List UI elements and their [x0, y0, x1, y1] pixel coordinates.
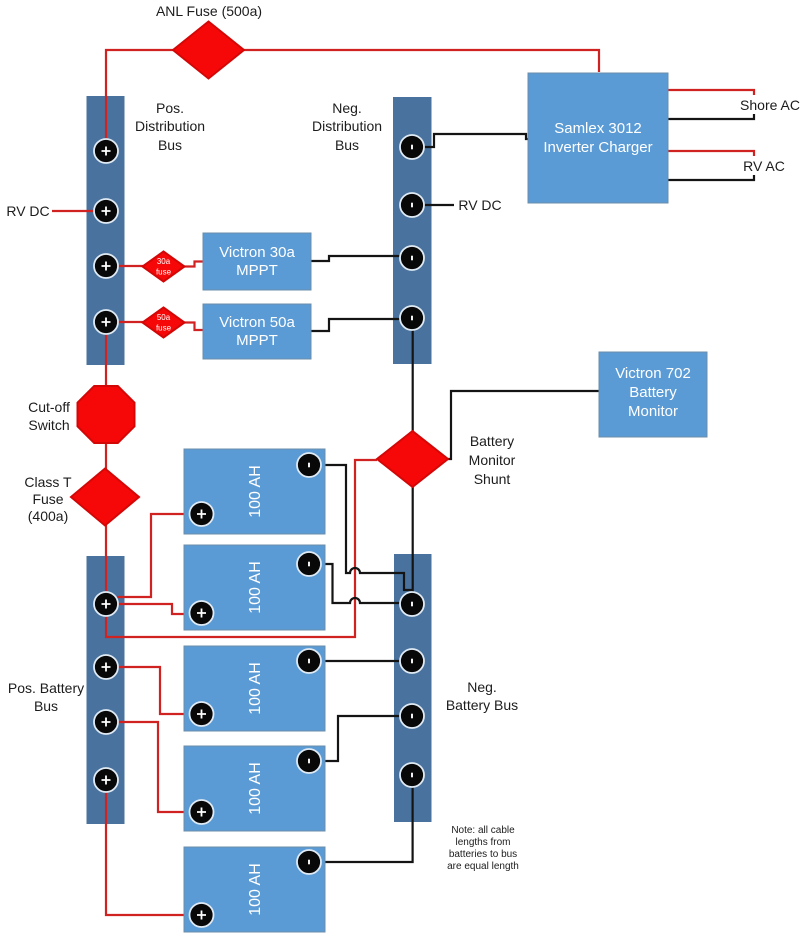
terminal: neg dist bus 3 [400, 246, 424, 270]
svg-text:Bus: Bus [34, 698, 58, 714]
wire: pos battery bus terminal 2 to battery 3 positive [117, 667, 190, 714]
svg-text:Neg.: Neg. [332, 100, 362, 116]
label: Pos. Battery Bus [8, 680, 84, 714]
wire: pos battery bus terminal 4 to battery 5 positive [106, 791, 190, 915]
svg-text:Distribution: Distribution [135, 118, 205, 134]
terminal: battery 4 negative [297, 749, 321, 773]
wire: pos battery bus terminal 3 to battery 4 positive [117, 722, 190, 812]
svg-text:Bus: Bus [335, 137, 359, 153]
label: Battery Monitor Shunt [469, 433, 516, 487]
box: Victron 50a MPPT [203, 304, 311, 359]
svg-text:Pos.: Pos. [156, 100, 184, 116]
svg-text:fuse: fuse [156, 324, 172, 333]
bus bar: Pos. Battery Bus [87, 556, 125, 824]
wire: pos dist terminal 3 to 30a fuse [117, 265, 143, 267]
terminal: battery 1 negative [297, 453, 321, 477]
svg-text:50a: 50a [157, 313, 171, 322]
svg-text:Shore AC: Shore AC [740, 97, 800, 113]
terminal: battery 5 negative [297, 850, 321, 874]
wire: pos battery bus terminal 1 to battery 2 positive [118, 604, 190, 614]
svg-text:Shunt: Shunt [474, 471, 511, 487]
svg-text:MPPT: MPPT [236, 332, 278, 349]
svg-text:Cut-off: Cut-off [28, 399, 70, 415]
svg-text:Distribution: Distribution [312, 118, 382, 134]
svg-text:Battery Bus: Battery Bus [446, 697, 518, 713]
wire: battery 1 positive to pos battery bus [117, 514, 190, 597]
wire: Class T fuse to pos battery bus terminal 1 [105, 525, 107, 593]
wire: neg dist bus terminal 4 down to shunt top [412, 329, 414, 432]
svg-text:RV DC: RV DC [6, 203, 49, 219]
svg-text:Victron 50a: Victron 50a [219, 314, 295, 331]
terminal: pos battery bus 1 [94, 592, 118, 616]
terminal: pos dist bus 1 [94, 139, 118, 163]
bus bar: Pos. Distribution Bus [87, 96, 125, 365]
svg-text:100 AH: 100 AH [247, 863, 264, 915]
wire: Samlex RV AC neutral [668, 175, 754, 180]
terminal: pos battery bus 3 [94, 710, 118, 734]
wire: RV DC to pos dist bus terminal 2 [52, 210, 95, 212]
svg-text:fuse: fuse [156, 268, 172, 277]
svg-text:Fuse: Fuse [32, 491, 63, 507]
label: Class T Fuse (400a) [24, 474, 72, 524]
svg-text:(400a): (400a) [28, 508, 68, 524]
wire: pos battery bus to battery monitor shunt sense [106, 460, 377, 637]
svg-text:Pos. Battery: Pos. Battery [8, 680, 84, 696]
svg-text:Note: all cable: Note: all cable [451, 825, 515, 836]
svg-text:100 AH: 100 AH [247, 762, 264, 814]
terminal: neg dist bus 4 [400, 306, 424, 330]
label: Neg. Distribution Bus [312, 100, 382, 153]
svg-text:batteries to bus: batteries to bus [449, 849, 517, 860]
fuse: ANL Fuse (500a) diamond [173, 22, 244, 79]
terminal: battery 3 negative [297, 649, 321, 673]
wire: battery 5 negative to neg battery bus terminal 4 [320, 786, 413, 862]
terminal: neg battery bus 4 [400, 763, 424, 787]
terminal: battery 4 positive [190, 800, 214, 824]
wire: cut-off switch to Class T fuse [105, 442, 107, 470]
terminal: pos dist bus 2 [94, 199, 118, 223]
wire: pos dist terminal 4 to 50a fuse [117, 321, 143, 323]
wire: Samlex shore AC neutral [668, 114, 754, 119]
terminal: neg battery bus 3 [400, 704, 424, 728]
wire: battery 2 negative to neg battery bus (hops red wire) [320, 564, 401, 603]
svg-text:Switch: Switch [28, 417, 69, 433]
fuse: Class T Fuse (400a) diamond [71, 469, 139, 526]
svg-text:100 AH: 100 AH [247, 662, 264, 714]
terminal: neg dist bus 2 [400, 193, 424, 217]
svg-text:Inverter Charger: Inverter Charger [543, 139, 652, 156]
wire: Victron 30a MPPT to neg dist terminal 3 [311, 256, 401, 261]
wire: Samlex RV AC hot [668, 151, 754, 156]
terminal: battery 3 positive [190, 702, 214, 726]
bus bar: Neg. Battery Bus [394, 554, 432, 822]
wire: neg dist bus terminal 2 to RV DC [424, 204, 454, 206]
label: Neg. Battery Bus [446, 679, 518, 713]
wire: pos dist bus terminal 1 up to ANL fuse left tip [106, 50, 173, 141]
wire: battery 1 negative to neg battery bus (hops red wire) [320, 465, 412, 590]
svg-text:ANL Fuse (500a): ANL Fuse (500a) [156, 3, 262, 19]
svg-text:are equal length: are equal length [447, 861, 519, 872]
svg-text:100 AH: 100 AH [247, 465, 264, 517]
box: Victron 30a MPPT [203, 233, 311, 290]
terminal: battery 1 positive [190, 502, 214, 526]
battery: 100 AH #2 [184, 545, 325, 630]
shunt: battery monitor shunt diamond [377, 431, 448, 487]
battery: 100 AH #4 [184, 746, 325, 831]
wire: 50a fuse to Victron 50a MPPT [184, 323, 203, 331]
terminal: battery 2 positive [190, 601, 214, 625]
svg-text:Samlex 3012: Samlex 3012 [554, 120, 642, 137]
svg-text:Battery: Battery [470, 433, 514, 449]
terminal: neg battery bus 1 [400, 592, 424, 616]
wire: Victron 50a MPPT to neg dist terminal 4 [311, 319, 401, 331]
battery: 100 AH #5 [184, 847, 325, 932]
svg-text:Monitor: Monitor [469, 452, 516, 468]
box: Samlex 3012 Inverter Charger [528, 73, 668, 203]
svg-text:Battery: Battery [629, 384, 677, 401]
fuse: 50a fuse diamond [143, 308, 185, 338]
terminal: neg dist bus 1 [400, 135, 424, 159]
svg-text:Victron 30a: Victron 30a [219, 244, 295, 261]
terminal: pos battery bus 2 [94, 655, 118, 679]
wire: neg dist bus terminal 1 to Samlex [424, 134, 529, 147]
fuse: 30a fuse diamond [143, 252, 185, 282]
bus bar: Neg. Distribution Bus [393, 97, 432, 364]
svg-text:RV DC: RV DC [458, 197, 501, 213]
wire: shunt bottom to neg battery bus terminal 1 [412, 487, 414, 593]
wire: battery 4 negative to neg battery bus terminal 3 [320, 716, 400, 761]
wire: 30a fuse to Victron 30a MPPT [184, 262, 203, 267]
wire: Samlex shore AC hot [668, 90, 754, 95]
svg-text:RV AC: RV AC [743, 158, 785, 174]
switch: cut-off switch octagon [78, 386, 135, 443]
battery: 100 AH #3 [184, 646, 325, 731]
svg-text:30a: 30a [157, 257, 171, 266]
svg-text:MPPT: MPPT [236, 262, 278, 279]
wire: ANL fuse right tip to Samlex top [244, 50, 599, 72]
svg-text:Neg.: Neg. [467, 679, 497, 695]
wire: battery 3 negative to neg battery bus terminal 2 [320, 660, 400, 662]
terminal: battery 2 negative [297, 552, 321, 576]
svg-text:Class T: Class T [24, 474, 72, 490]
terminal: pos dist bus 3 [94, 254, 118, 278]
terminal: battery 5 positive [190, 903, 214, 927]
terminal: pos battery bus 4 [94, 768, 118, 792]
svg-text:Monitor: Monitor [628, 403, 678, 420]
svg-text:lengths from: lengths from [455, 837, 510, 848]
wire: shunt to Victron 702 battery monitor [448, 391, 599, 459]
box: Victron 702 Battery Monitor [599, 352, 707, 437]
label: Cut-off Switch [28, 399, 70, 433]
battery: 100 AH #1 [184, 449, 325, 534]
svg-text:Victron 702: Victron 702 [615, 365, 691, 382]
svg-text:100 AH: 100 AH [247, 561, 264, 613]
svg-text:Bus: Bus [158, 137, 182, 153]
label: Pos. Distribution Bus [135, 100, 205, 153]
note: cable lengths [447, 825, 519, 872]
terminal: pos dist bus 4 [94, 310, 118, 334]
terminal: neg battery bus 2 [400, 649, 424, 673]
wire: pos dist bus bottom to cut-off switch [105, 333, 107, 387]
